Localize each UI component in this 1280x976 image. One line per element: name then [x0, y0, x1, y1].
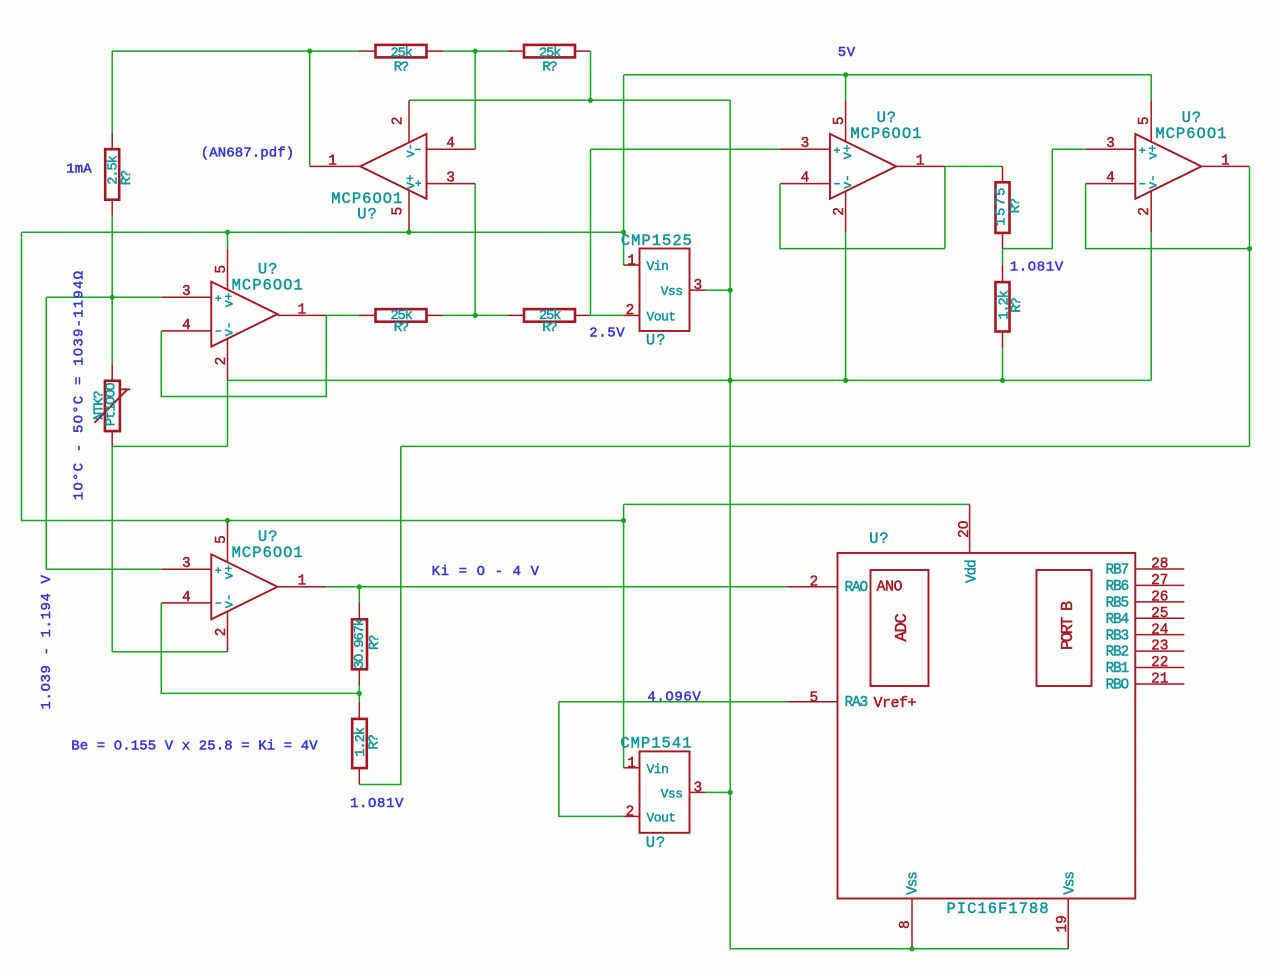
pin U4 pin5 vertical [1150, 100, 1152, 141]
svg-text:Vss: Vss [661, 284, 683, 299]
svg-text:22: 22 [1151, 655, 1168, 671]
pin U3 pin5 vertical [845, 100, 847, 141]
microcontroller U8 PIC16F1788 body [838, 553, 1136, 899]
thermistor RT1 diagonal strike [95, 389, 131, 423]
svg-text:2: 2 [626, 804, 635, 820]
svg-text:v+: v+ [403, 174, 418, 189]
wire U3 feedback loop [780, 184, 945, 249]
wire R8 to R9 junction [358, 685, 360, 702]
pin R9 top stub [358, 703, 360, 719]
pin RT1 top stub [111, 365, 113, 381]
resistor R6 1575 body [996, 182, 1010, 233]
svg-text:v-: v- [840, 175, 855, 190]
svg-text:RAO: RAO [845, 580, 868, 596]
svg-text:v+: v+ [221, 564, 236, 579]
svg-text:U?: U? [869, 530, 890, 548]
junction rail / R7 bottom [1000, 378, 1005, 383]
junction CMP1525 Vss / x730 [728, 288, 733, 293]
op-amp U2 triangle [211, 282, 277, 347]
pin CMP1541 pin2 Vout stub [623, 815, 639, 817]
wire x623 down to CMP1541 Vin [623, 504, 625, 767]
wire U3 pin2 down to rail [845, 232, 847, 380]
op-amp U4 pin name V+ and plus [1139, 147, 1145, 153]
pin R4 right stub [427, 314, 444, 316]
wire U2 feedback loop [161, 315, 326, 396]
svg-text:MCP6OO1: MCP6OO1 [232, 544, 304, 562]
pin R6 top stub [1002, 166, 1004, 182]
op-amp U3 pin name V+ and plus [834, 147, 840, 153]
pin PIC RB2 stub pin 23 [1135, 650, 1184, 652]
wire into U4 pin3 [1052, 148, 1085, 150]
pin R7 top stub [1002, 265, 1004, 282]
svg-text:5: 5 [391, 207, 407, 216]
svg-text:Pt1OOO: Pt1OOO [103, 383, 119, 427]
svg-text:4: 4 [182, 590, 191, 606]
svg-text:21: 21 [1151, 672, 1168, 688]
wire U2 out to R4 [326, 314, 359, 316]
svg-text:RB5: RB5 [1105, 595, 1128, 611]
svg-text:R?: R? [394, 59, 409, 75]
op-amp U4 triangle [1135, 134, 1201, 199]
junction y520 end / x623 vertical [621, 518, 626, 523]
pin PIC pin2 RA0 stub [788, 586, 838, 588]
svg-text:Ki = O - 4 V: Ki = O - 4 V [432, 564, 540, 580]
pin R1 bottom stub [111, 200, 113, 216]
svg-text:v-: v- [403, 143, 418, 158]
wire long mid horizontal [22, 231, 624, 233]
op-amp U2 pin name V- and minus [215, 330, 221, 332]
svg-text:2: 2 [214, 357, 230, 366]
svg-text:v-: v- [221, 594, 236, 609]
resistor R9 1.2k body [352, 719, 367, 768]
wire thermistor bottom loop right [112, 445, 227, 447]
junction CMP1541 Vss / x730 [728, 790, 733, 795]
pin U1 pin3 [427, 183, 476, 185]
wire U1 pin3 down to row2 junction [474, 184, 476, 316]
resistor R8 30.967k body [352, 619, 367, 669]
svg-text:1: 1 [627, 253, 636, 269]
wire Ki down to R8 [358, 587, 360, 603]
svg-text:MCP6OO1: MCP6OO1 [850, 125, 922, 143]
svg-text:1: 1 [916, 153, 925, 169]
pin U2 pin3 [161, 296, 211, 298]
svg-text:2: 2 [809, 575, 818, 591]
svg-text:1.O81V: 1.O81V [1010, 260, 1064, 276]
svg-text:5: 5 [214, 535, 230, 544]
svg-text:U?: U? [646, 834, 667, 852]
svg-text:RB7: RB7 [1105, 563, 1128, 579]
svg-text:U?: U? [357, 206, 378, 224]
svg-text:v+: v+ [221, 292, 236, 307]
svg-text:2: 2 [832, 207, 848, 216]
svg-text:2: 2 [626, 303, 635, 319]
svg-text:1.O39 - 1.194 V: 1.O39 - 1.194 V [39, 574, 55, 709]
pin U5 pin4 [161, 602, 211, 604]
wire left edge down and across y520 [22, 232, 624, 520]
svg-text:27: 27 [1151, 573, 1168, 589]
U8 ADC block box [871, 570, 929, 686]
junction row2 / U1 pin3 wire [473, 313, 478, 318]
wire Ki net to PIC RA0 [326, 586, 787, 588]
svg-text:RBO: RBO [1105, 678, 1128, 694]
pin U3 pin4 [780, 183, 830, 185]
junction y520 / U5 pin5 [225, 518, 230, 523]
pin R8 top stub [358, 603, 360, 619]
svg-text:2.5V: 2.5V [589, 326, 625, 342]
svg-text:3: 3 [693, 278, 702, 294]
pin R5 left stub [508, 314, 525, 316]
svg-text:5: 5 [832, 116, 848, 125]
wire down to R1 [111, 51, 113, 133]
resistor R5 25k body [524, 309, 575, 322]
svg-text:MCP6OO1: MCP6OO1 [232, 277, 304, 295]
wire 4.096V down to CMP1541 Vout [559, 702, 624, 817]
op-amp U2 pin name V+ and plus [215, 295, 221, 301]
wire R6 to R7 node [1002, 249, 1004, 265]
pin R7 bottom stub [1002, 332, 1004, 349]
svg-text:ANO: ANO [877, 579, 903, 596]
svg-text:Vss: Vss [905, 872, 921, 895]
svg-text:28: 28 [1151, 557, 1168, 573]
junction rail / x730 [728, 378, 733, 383]
wire 4.096V net horizontal [559, 701, 788, 703]
pin R5 right stub [575, 314, 591, 316]
svg-text:8: 8 [898, 920, 914, 929]
wire long rail y380 [228, 379, 1152, 381]
junction U5 feedback / R8-R9 node [357, 691, 362, 696]
wire x590 down to 2.5V node [590, 149, 592, 315]
svg-text:2: 2 [1137, 207, 1153, 216]
pin PIC RB4 stub pin 25 [1135, 617, 1184, 619]
svg-text:v+: v+ [1145, 144, 1160, 159]
svg-text:Vss: Vss [661, 786, 683, 801]
svg-text:R?: R? [1009, 298, 1025, 313]
svg-text:Vdd: Vdd [964, 560, 980, 583]
svg-text:26: 26 [1151, 589, 1168, 605]
wire top row down to U1 pin4 [474, 51, 476, 149]
wire x1249 up to U4 output node [1249, 249, 1251, 447]
pin PIC pin8 Vss vertical [911, 899, 913, 949]
svg-text:4: 4 [801, 170, 810, 186]
svg-text:24: 24 [1151, 622, 1168, 638]
pin U4 pin4 [1086, 183, 1136, 185]
pin U3 output pin1 [895, 165, 945, 167]
resistor R4 25k body [376, 309, 427, 322]
pin U2 pin4 [161, 330, 211, 332]
svg-text:1O°C - 5O°C = 1O39-1194Ω: 1O°C - 5O°C = 1O39-1194Ω [71, 270, 87, 500]
junction top row / U1 pin4 [473, 49, 478, 54]
pin U1 output pin1 [310, 165, 361, 167]
wire divider tap to U4 pin3 [1003, 149, 1053, 248]
svg-text:R?: R? [394, 320, 409, 336]
svg-text:RB6: RB6 [1105, 579, 1128, 595]
svg-text:R?: R? [542, 320, 557, 336]
svg-text:1.O81V: 1.O81V [350, 796, 404, 812]
svg-text:Be = O.155 V x 25.8 = Ki = 4V: Be = O.155 V x 25.8 = Ki = 4V [71, 738, 318, 754]
svg-text:RB3: RB3 [1105, 628, 1128, 644]
svg-text:Vss: Vss [1062, 872, 1078, 895]
wire CMP1541 Vss to x730 [706, 791, 730, 793]
svg-text:R?: R? [1008, 198, 1024, 213]
svg-text:4: 4 [182, 318, 191, 334]
svg-text:v-: v- [221, 322, 236, 337]
wire 5V down to CMP1525 Vin [623, 75, 625, 265]
pin PIC RB7 stub pin 28 [1135, 568, 1184, 570]
wire long vertical x730 and bottom Vss run [730, 100, 1068, 949]
pin CMP1525 pin2 Vout stub [623, 314, 639, 316]
wire R9 bottom up right side [359, 446, 401, 784]
wire x112 down to U5 pin2 row [111, 446, 113, 651]
svg-text:3: 3 [693, 781, 702, 797]
svg-text:2O: 2O [957, 521, 973, 538]
svg-text:v-: v- [1145, 175, 1160, 190]
svg-text:Vref+: Vref+ [874, 695, 917, 712]
pin CMP1525 pin3 Vss stub [690, 289, 706, 291]
wire into U5 pin2 [112, 651, 227, 653]
svg-text:CMP1525: CMP1525 [621, 232, 693, 250]
wire stub to U2 pin5 [227, 232, 229, 249]
pin R2 right stub [427, 50, 444, 52]
pin U4 output pin1 [1201, 165, 1249, 167]
svg-text:5: 5 [809, 690, 818, 706]
pin U1 pin2 vertical [408, 100, 410, 142]
op-amp U4 pin name V- and minus [1139, 183, 1145, 185]
wire y446 long horizontal [401, 445, 1250, 447]
resistor R3 25k body [524, 45, 575, 58]
svg-text:PORT B: PORT B [1059, 601, 1078, 650]
svg-text:4: 4 [1106, 170, 1115, 186]
wire 2.5V node to CMP1525 [591, 314, 624, 316]
pin CMP1525 pin1 Vin stub [624, 264, 640, 266]
svg-text:RB1: RB1 [1105, 661, 1128, 677]
svg-text:4.O96V: 4.O96V [647, 690, 701, 706]
junction bottom Vss wire / PIC pin8 [909, 946, 914, 951]
pin U5 output pin1 [278, 586, 327, 588]
pin U1 pin4 [427, 148, 476, 150]
wire U1 output up to top row [309, 51, 311, 166]
svg-text:5: 5 [214, 265, 230, 274]
wire U3 feedback up to output [944, 166, 946, 248]
op-amp U3 pin name V- and minus [834, 183, 840, 185]
wire U4 pin2 down to rail [1150, 232, 1152, 380]
pin U5 pin3 [161, 568, 211, 570]
pin PIC RB6 stub pin 27 [1135, 584, 1184, 586]
pin R9 bottom stub [358, 768, 360, 784]
pin PIC pin19 Vss vertical [1067, 899, 1069, 949]
wire 5V to U4 pin5 [1150, 75, 1152, 101]
svg-text:19: 19 [1055, 915, 1071, 932]
pin PIC pin5 RA3 stub [788, 701, 838, 703]
op-amp U3 triangle [830, 134, 896, 199]
svg-text:U?: U? [646, 331, 667, 349]
pin R4 left stub [359, 314, 376, 316]
pin R3 left stub [508, 50, 525, 52]
voltage reference U6 CMP1525 body [640, 249, 690, 332]
resistor R2 25k body [376, 45, 427, 58]
wire U4 feedback loop [1086, 184, 1250, 249]
pin U4 pin3 [1086, 148, 1136, 150]
svg-text:3: 3 [446, 170, 455, 186]
pin U2 pin2 vertical [227, 339, 229, 381]
U8 PORT B block box [1037, 570, 1092, 686]
pin U3 pin3 [780, 148, 830, 150]
wire R1 bottom to thermistor top [111, 216, 113, 365]
wire U4 output down [1249, 166, 1251, 248]
wire 5V to U3 pin5 [845, 75, 847, 101]
wire top row left segment [112, 50, 359, 52]
pin R3 right stub [575, 50, 591, 52]
thermistor RT1 Pt1000 body [105, 381, 120, 431]
svg-text:3: 3 [182, 284, 191, 300]
pin R1 top stub [111, 133, 113, 149]
svg-text:25: 25 [1151, 606, 1168, 622]
wire into U2 pin3 [46, 296, 161, 298]
wire Vdd net horizontal [624, 503, 970, 505]
pin PIC RB0 stub pin 21 [1135, 683, 1184, 685]
pin R8 bottom stub [358, 669, 360, 685]
svg-text:R?: R? [119, 170, 135, 185]
svg-text:2: 2 [391, 117, 407, 126]
wire U3 out to R6 [945, 165, 1003, 167]
op-amp U5 pin name V- and minus [215, 602, 221, 604]
resistor R7 1.2k body [996, 282, 1010, 331]
pin PIC RB5 stub pin 26 [1135, 601, 1184, 603]
junction rail / U3 pin2 [843, 378, 848, 383]
svg-text:CMP1541: CMP1541 [620, 734, 692, 752]
svg-text:R?: R? [367, 635, 383, 650]
wire CMP1525 Vss to x730 [706, 289, 730, 291]
svg-text:v+: v+ [840, 144, 855, 159]
svg-text:RB2: RB2 [1105, 645, 1128, 661]
svg-text:1: 1 [1221, 153, 1230, 169]
voltage reference U7 CMP1541 body [640, 751, 690, 832]
pin CMP1541 pin3 Vss stub [690, 791, 706, 793]
wire between R2 and R3 [443, 50, 508, 52]
pin U3 pin2 vertical [845, 191, 847, 232]
wire R7 bottom to rail [1002, 348, 1004, 380]
svg-text:ADC: ADC [893, 614, 912, 642]
svg-text:1: 1 [298, 302, 307, 318]
op-amp U5 pin name V+ and plus [215, 567, 221, 573]
svg-text:1: 1 [328, 153, 337, 169]
pin U5 pin2 vertical [227, 611, 229, 652]
svg-text:2: 2 [214, 628, 230, 637]
svg-text:3: 3 [801, 136, 810, 152]
op-amp U5 triangle [211, 554, 277, 619]
pin CMP1541 pin1 Vin stub [624, 767, 640, 769]
svg-text:RB4: RB4 [1105, 612, 1128, 628]
junction mid wire / U2 pin5 [225, 230, 230, 235]
wire y149 from x590 to U3 pin3 [591, 148, 781, 150]
wire x46 down to U5 pin3 row [46, 297, 161, 569]
wire 5V rail [624, 74, 1152, 76]
junction top row / U1 output [307, 49, 312, 54]
svg-text:PIC16F1788: PIC16F1788 [946, 900, 1049, 918]
svg-text:1: 1 [627, 756, 636, 772]
svg-text:Vin: Vin [647, 259, 669, 274]
svg-text:R?: R? [542, 59, 557, 75]
svg-text:5V: 5V [838, 45, 856, 61]
svg-text:MCP6OO1: MCP6OO1 [1155, 125, 1227, 143]
wire U5 feedback loop [161, 603, 359, 694]
junction 5V rail / U3 pin5 [843, 72, 848, 77]
junction U4 output / feedback / y446 [1247, 246, 1252, 251]
svg-text:3: 3 [1106, 136, 1115, 152]
pin U2 pin5 vertical [227, 249, 229, 291]
pin R6 bottom stub [1002, 233, 1004, 249]
svg-text:1mA: 1mA [66, 162, 92, 178]
junction mid wire / U1 pin5 [406, 230, 411, 235]
wire y100 horizontal to x730 [409, 99, 730, 101]
svg-text:RA3: RA3 [845, 695, 868, 711]
wire R3 output down [590, 51, 592, 100]
resistor R1 2.5k body [105, 149, 119, 200]
pin PIC RB3 stub pin 24 [1135, 634, 1184, 636]
svg-text:Vout: Vout [647, 309, 676, 324]
junction Ki wire / R8 top [357, 584, 362, 589]
junction x112 / U2 pin3 wire [110, 295, 115, 300]
pin RT1 bottom stub [111, 431, 113, 446]
svg-text:Vout: Vout [647, 810, 676, 825]
junction mid wire / 5V drop [621, 230, 626, 235]
wire between R4 and R5 [443, 314, 508, 316]
pin PIC pin20 Vdd vertical [969, 504, 971, 553]
pin U2 output pin1 [278, 314, 327, 316]
pin U5 pin5 vertical [227, 521, 229, 563]
svg-text:3O.967k: 3O.967k [352, 618, 368, 669]
pin PIC RB1 stub pin 22 [1135, 667, 1184, 669]
pin R2 left stub [359, 50, 376, 52]
pin U1 pin5 vertical [408, 191, 410, 232]
junction R3 out / y100 wire [588, 98, 593, 103]
svg-text:4: 4 [446, 136, 455, 152]
svg-text:1: 1 [298, 574, 307, 590]
svg-text:(AN687.pdf): (AN687.pdf) [201, 145, 295, 161]
wire x227 pin2 down to thermistor loop [227, 380, 229, 446]
pin U4 pin2 vertical [1150, 191, 1152, 232]
svg-text:R?: R? [367, 735, 383, 750]
svg-text:Vin: Vin [647, 762, 669, 777]
op-amp U1 triangle [360, 134, 426, 199]
svg-text:3: 3 [182, 556, 191, 572]
svg-text:5: 5 [1137, 116, 1153, 125]
svg-text:23: 23 [1151, 639, 1168, 655]
